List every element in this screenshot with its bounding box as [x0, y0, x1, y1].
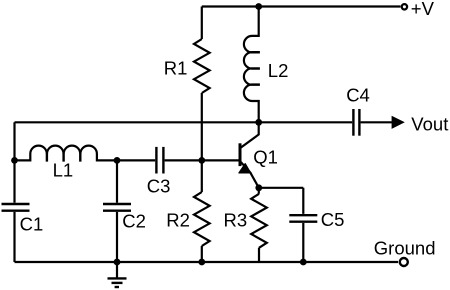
svg-text:+V: +V	[411, 0, 435, 19]
svg-text:Vout: Vout	[411, 114, 448, 135]
svg-text:C1: C1	[20, 213, 44, 234]
svg-text:Q1: Q1	[253, 147, 278, 168]
svg-text:C4: C4	[346, 84, 370, 105]
svg-text:L2: L2	[268, 60, 289, 81]
svg-text:C3: C3	[147, 175, 171, 196]
svg-text:R1: R1	[164, 57, 188, 78]
svg-text:L1: L1	[53, 159, 74, 180]
svg-text:C5: C5	[321, 209, 345, 230]
svg-text:R2: R2	[166, 209, 190, 230]
svg-text:R3: R3	[224, 210, 248, 231]
svg-text:Ground: Ground	[374, 238, 436, 259]
svg-text:C2: C2	[122, 210, 146, 231]
